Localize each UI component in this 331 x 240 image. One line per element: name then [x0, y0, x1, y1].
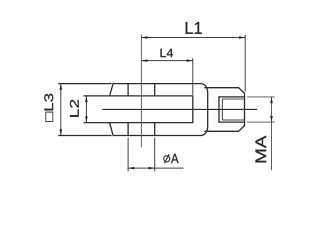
L4 label [161, 49, 174, 57]
vertical hole centerline [140, 35, 142, 148]
part outline: clevis fork body [110, 84, 245, 136]
dimension L4 [141, 58, 192, 95]
thread inner left line [221, 99, 223, 120]
thread bottom face [218, 97, 220, 122]
pin hole right edge (bottom prong) [154, 123, 156, 136]
L2 label [70, 100, 79, 117]
phiA right arrow [149, 167, 155, 170]
top edge [113, 83, 201, 85]
dimension L1 [141, 35, 245, 92]
L3 label [44, 94, 53, 122]
phiA left arrow [128, 167, 134, 170]
L3 top arrow [60, 84, 63, 90]
L2 top arrow [85, 96, 88, 102]
L3 bottom arrow [60, 129, 63, 135]
L1 left arrow [141, 36, 147, 39]
L4 left arrow [141, 59, 147, 62]
L4 right arrow [187, 59, 193, 62]
boss top-right chamfer [239, 88, 245, 94]
thread outer top line [219, 96, 245, 98]
L1 label [186, 22, 202, 34]
MA down arrow [270, 116, 273, 122]
dimension MA (thread) [247, 97, 275, 170]
slot top line [110, 95, 193, 97]
slot bottom line [110, 122, 193, 124]
top prong front chamfer [110, 84, 114, 96]
thread inner top line [222, 98, 244, 100]
pin hole left edge (bottom prong) [127, 123, 129, 136]
MA up arrow [270, 97, 273, 103]
pin hole left edge (top prong) [127, 84, 129, 96]
L1 right arrow [239, 36, 245, 39]
horizontal centerline [102, 108, 257, 110]
boss bottom-right chamfer [239, 126, 245, 132]
thread outer bottom line [219, 121, 245, 123]
dimension phiA (pin hole) [128, 138, 183, 172]
boss bottom edge [205, 130, 239, 132]
pin hole right edge (top prong) [154, 84, 156, 96]
MA label [256, 136, 267, 163]
boss right end face [244, 93, 246, 125]
boss top edge [205, 87, 239, 89]
phiA label: A [171, 154, 179, 163]
bottom prong front chamfer [110, 123, 114, 136]
cone transition curve [201, 84, 207, 136]
bottom edge [113, 135, 201, 137]
dimension L2 (slot width) [85, 96, 87, 123]
dimension L3 (square body height) [60, 84, 62, 136]
L2 bottom arrow [85, 116, 88, 122]
slot end face [192, 96, 194, 123]
thread inner bottom line [222, 119, 244, 121]
phiA label: diameter symbol [164, 154, 170, 163]
